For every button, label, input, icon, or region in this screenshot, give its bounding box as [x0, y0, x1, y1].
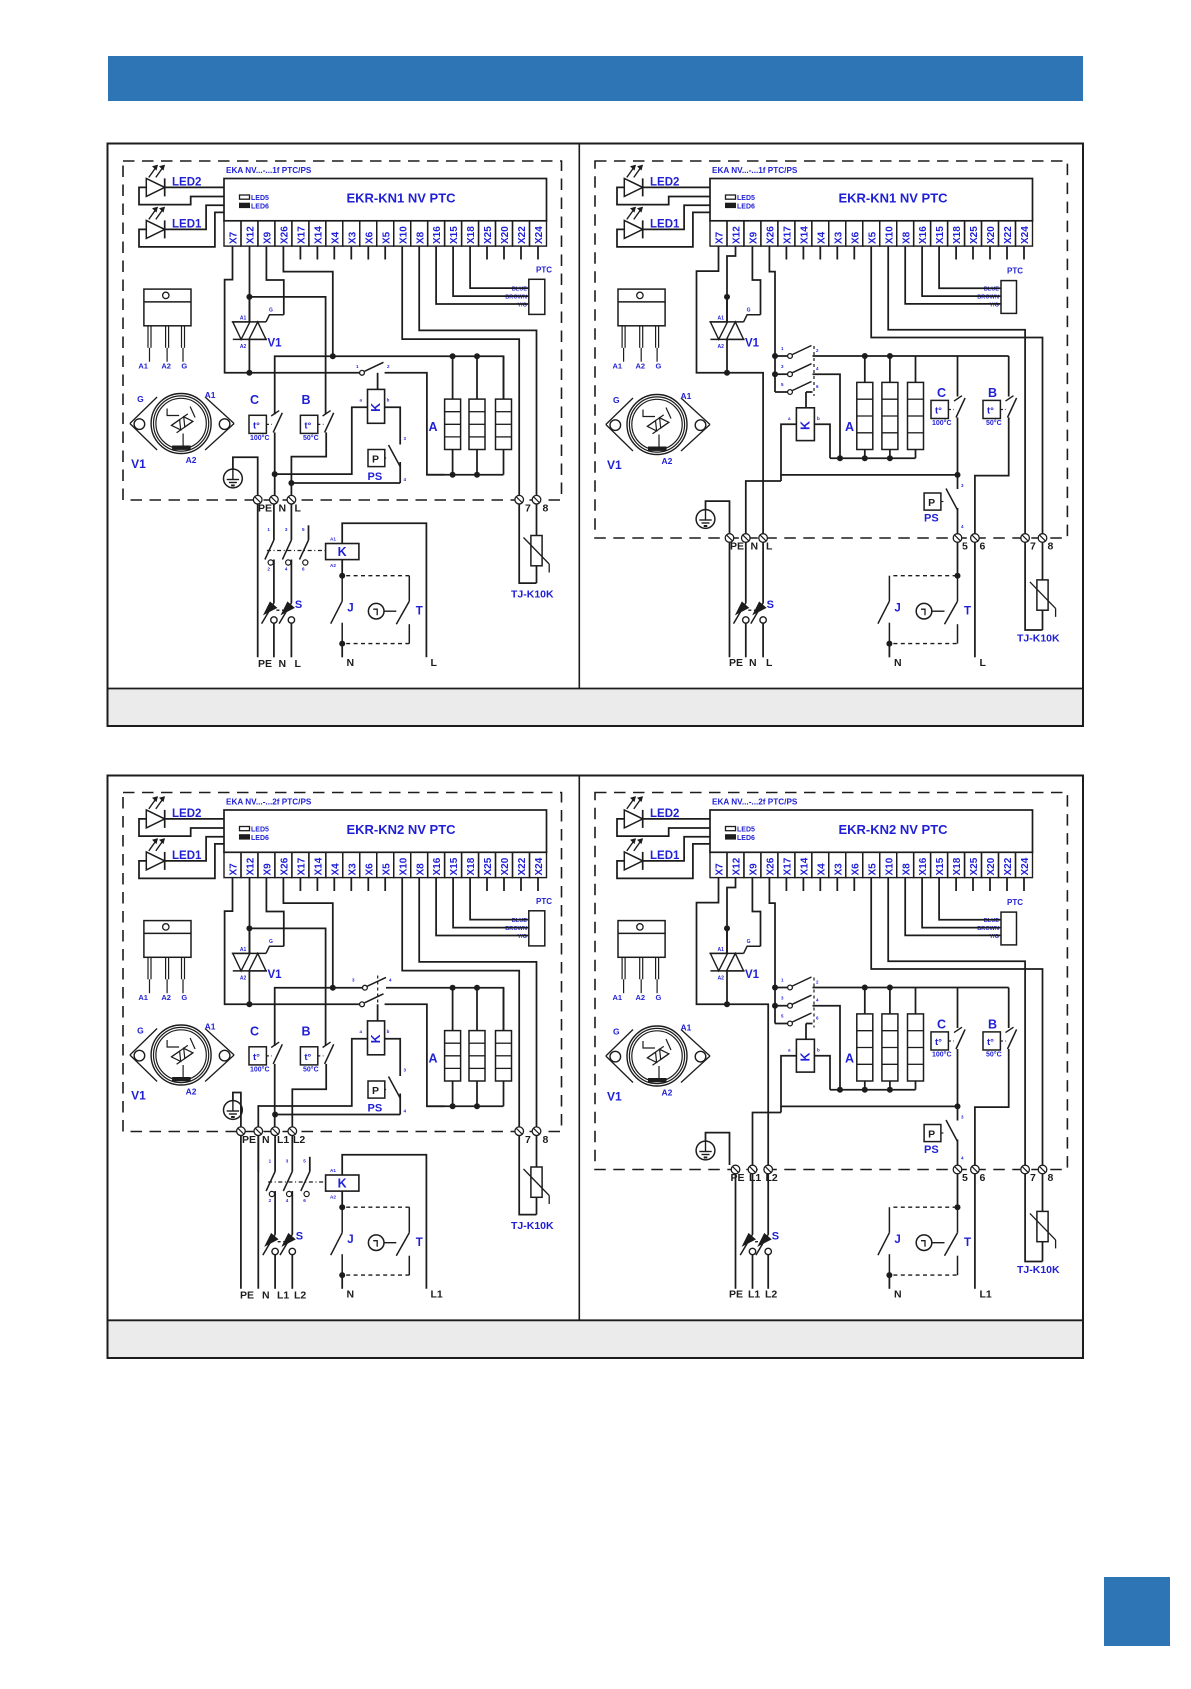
wire switch to relay K coil	[377, 373, 379, 390]
switch linkage	[813, 978, 815, 1028]
wire PE down	[729, 542, 731, 657]
node heater bottom junctions	[862, 455, 868, 461]
svg-text:7: 7	[1030, 1172, 1036, 1184]
svg-text:N: N	[894, 1289, 902, 1301]
svg-text:L: L	[295, 658, 302, 670]
switch pole 1	[775, 987, 788, 989]
svg-text:L1: L1	[748, 1289, 760, 1301]
wire C feed	[957, 988, 959, 1029]
svg-text:X3: X3	[347, 231, 358, 244]
page header bar	[108, 56, 1083, 101]
svg-text:A: A	[429, 420, 438, 434]
svg-text:X17: X17	[297, 857, 308, 875]
indicator LED6	[726, 203, 736, 207]
svg-text:1: 1	[267, 527, 270, 532]
thermostat B 50degC	[300, 415, 317, 433]
wire K coil top to L	[342, 523, 426, 657]
svg-text:X6: X6	[364, 231, 375, 244]
blue page number block	[1104, 1577, 1170, 1646]
node heater top junctions	[450, 985, 456, 991]
heater return rail	[427, 474, 504, 476]
svg-text:8: 8	[543, 503, 549, 515]
svg-text:A1: A1	[681, 391, 692, 401]
svg-text:A: A	[845, 1052, 854, 1066]
svg-text:PS: PS	[924, 1144, 939, 1156]
svg-text:LED6: LED6	[737, 203, 755, 210]
indicator LED6	[240, 835, 250, 839]
protective earth symbol	[696, 1141, 715, 1160]
svg-text:t°: t°	[987, 405, 994, 416]
indicator LED6	[240, 203, 250, 207]
svg-text:X14: X14	[314, 857, 325, 875]
bushing terminal 6	[971, 534, 980, 543]
svg-text:N: N	[262, 1290, 270, 1302]
svg-text:LED5: LED5	[251, 195, 269, 202]
node heater top junctions	[862, 985, 868, 991]
svg-text:X18: X18	[952, 857, 963, 875]
wire X10 to terminal 7	[402, 246, 519, 495]
thermostat JT circuit	[346, 575, 409, 577]
wire X12 to triac A1	[249, 246, 251, 322]
protective earth symbol	[224, 1101, 243, 1120]
svg-text:N: N	[751, 541, 759, 553]
svg-text:G: G	[181, 993, 187, 1002]
wire X18 stub	[955, 246, 957, 259]
svg-text:b: b	[387, 1029, 390, 1034]
wire X7 to triac A2 rail	[697, 878, 728, 1005]
svg-text:C: C	[250, 1025, 259, 1039]
controller module EKR-KN2 NV PTC	[224, 810, 547, 852]
figure table bottom row	[108, 776, 1084, 1359]
controller module EKR-KN2 NV PTC	[710, 810, 1033, 852]
svg-text:X16: X16	[432, 857, 443, 875]
wire K right pin to heater return	[814, 1056, 830, 1090]
PTC connector	[529, 911, 545, 946]
svg-text:A2: A2	[662, 1088, 673, 1098]
svg-text:X18: X18	[466, 857, 477, 875]
svg-text:t°: t°	[253, 420, 260, 431]
svg-text:X16: X16	[918, 857, 929, 875]
svg-text:5: 5	[962, 541, 968, 553]
enclosure bushings supply	[731, 1165, 740, 1174]
wire X9 to gate	[266, 246, 283, 315]
svg-text:100°C: 100°C	[932, 419, 952, 427]
svg-text:TJ-K10K: TJ-K10K	[1017, 633, 1060, 645]
svg-text:G: G	[656, 993, 662, 1002]
svg-text:TJ-K10K: TJ-K10K	[511, 1220, 554, 1232]
triac V1 symbol	[709, 952, 743, 954]
thermostat B 50degC	[983, 400, 1000, 418]
svg-text:X9: X9	[749, 863, 760, 876]
svg-text:A1: A1	[240, 947, 247, 953]
wire K coil top to L	[342, 1155, 426, 1289]
svg-text:L: L	[295, 503, 302, 515]
wire LED1 return loop	[139, 844, 224, 879]
thermostat JT circuit	[346, 1206, 409, 1208]
switch pole 2	[775, 1005, 788, 1007]
svg-text:6: 6	[302, 567, 305, 572]
wire triac vertical	[248, 928, 250, 953]
switch S	[734, 602, 747, 623]
node heater bottom junctions	[862, 1087, 868, 1093]
svg-text:X9: X9	[263, 863, 274, 876]
bushing terminal 7	[1021, 1165, 1030, 1174]
contactor K coil	[326, 1175, 359, 1191]
svg-text:X9: X9	[749, 231, 760, 244]
svg-text:C: C	[937, 386, 946, 400]
svg-text:PTC: PTC	[536, 897, 552, 906]
LED2	[146, 178, 164, 196]
svg-text:X3: X3	[347, 863, 358, 876]
switch linkage	[813, 346, 815, 396]
wire C to PS junction	[957, 1049, 959, 1121]
svg-text:X12: X12	[246, 857, 257, 875]
svg-text:A1: A1	[718, 315, 725, 321]
bushing terminal 7	[1021, 534, 1030, 543]
node heater bottom junctions	[450, 472, 456, 478]
svg-text:K: K	[799, 1052, 813, 1061]
svg-text:X8: X8	[901, 863, 912, 876]
svg-text:X6: X6	[850, 863, 861, 876]
svg-text:B: B	[988, 1018, 997, 1032]
svg-text:1: 1	[269, 1159, 272, 1164]
wire K right pin to PS	[385, 1039, 401, 1076]
wire L down to contactor	[290, 504, 292, 540]
svg-text:LED6: LED6	[251, 835, 269, 842]
heater return rail	[830, 1089, 916, 1091]
wire earth to PE	[233, 1093, 241, 1127]
node triac top	[724, 925, 730, 931]
svg-text:X4: X4	[816, 231, 827, 244]
svg-text:X18: X18	[952, 226, 963, 244]
svg-text:EKA NV...-...2f PTC/PS: EKA NV...-...2f PTC/PS	[712, 798, 798, 807]
triac V1 symbol	[709, 321, 743, 323]
svg-text:t°: t°	[304, 420, 311, 431]
svg-text:5: 5	[962, 1172, 968, 1184]
TO-220 package	[144, 921, 191, 958]
wire to N bottom	[341, 644, 343, 658]
svg-text:7: 7	[525, 503, 531, 515]
wire L riser to triac bottom	[727, 373, 763, 534]
svg-text:X20: X20	[986, 857, 997, 875]
svg-text:X20: X20	[500, 226, 511, 244]
svg-text:PS: PS	[368, 1103, 383, 1115]
bushing terminal 8	[532, 495, 541, 504]
svg-text:N: N	[279, 503, 287, 515]
wire X9 to gate	[752, 878, 760, 947]
svg-text:L: L	[431, 657, 438, 669]
svg-text:S: S	[772, 1231, 779, 1243]
svg-text:X14: X14	[314, 226, 325, 244]
svg-text:X16: X16	[918, 226, 929, 244]
heater return rail	[427, 1105, 504, 1107]
PTC connector	[1001, 912, 1017, 945]
node switch feed 2	[772, 371, 778, 377]
pressure switch PS	[368, 1081, 385, 1098]
svg-text:P: P	[928, 497, 935, 509]
wire earth to PE	[706, 501, 730, 533]
svg-text:X3: X3	[833, 231, 844, 244]
temperature sensor TJ-K10K	[519, 1136, 536, 1215]
wire triac top to thermostat B column	[249, 928, 325, 1045]
svg-text:A2: A2	[636, 993, 646, 1002]
svg-text:X15: X15	[935, 226, 946, 244]
svg-text:X4: X4	[330, 863, 341, 876]
node triac bottom	[724, 370, 730, 376]
svg-text:K: K	[369, 1034, 383, 1043]
svg-text:K: K	[338, 1177, 347, 1191]
svg-text:X17: X17	[297, 226, 308, 244]
node heater top junctions	[862, 353, 868, 359]
svg-text:X12: X12	[246, 226, 257, 244]
svg-text:PE: PE	[240, 1290, 254, 1302]
wire LED2 cathode to controller	[643, 186, 710, 188]
thermostat JT circuit	[893, 1206, 957, 1208]
wire triac vertical	[726, 928, 728, 953]
node triac top	[724, 294, 730, 300]
svg-text:PE: PE	[729, 1289, 743, 1301]
svg-text:L1: L1	[277, 1134, 289, 1146]
svg-text:X10: X10	[884, 857, 895, 875]
svg-text:50°C: 50°C	[303, 1065, 319, 1073]
svg-text:6: 6	[303, 1198, 306, 1203]
wires to S	[752, 1174, 754, 1234]
svg-text:A2: A2	[718, 344, 725, 350]
svg-text:X25: X25	[969, 857, 980, 875]
wire X18 to PTC blue	[470, 246, 529, 288]
svg-text:G: G	[269, 307, 273, 313]
svg-text:X5: X5	[867, 863, 878, 876]
wire B to L column	[291, 432, 326, 483]
node triac bottom	[246, 370, 252, 376]
wire PE down	[240, 1136, 242, 1289]
svg-text:X26: X26	[280, 857, 291, 875]
wire LED2 cathode to controller	[165, 186, 224, 188]
svg-text:t°: t°	[304, 1052, 311, 1063]
svg-text:J: J	[894, 1234, 900, 1246]
terminal strip X7..X24	[710, 221, 727, 246]
node switch feed 1	[772, 985, 778, 991]
svg-text:L2: L2	[765, 1289, 777, 1301]
svg-text:PTC: PTC	[536, 266, 552, 275]
svg-text:EKR-KN1 NV PTC: EKR-KN1 NV PTC	[838, 191, 948, 206]
svg-text:G: G	[181, 362, 187, 371]
wire X26 riser	[283, 246, 332, 356]
svg-text:V1: V1	[268, 338, 283, 350]
svg-text:5: 5	[303, 1159, 306, 1164]
svg-text:V1: V1	[607, 458, 622, 472]
svg-text:8: 8	[1048, 1172, 1054, 1184]
wire C column	[274, 413, 276, 415]
node triac bottom	[246, 1001, 252, 1007]
terminal strip X7..X24	[224, 221, 241, 246]
figure table top row	[108, 144, 1084, 727]
wire N down to contactor	[257, 1136, 259, 1172]
wire triac vertical	[726, 297, 728, 322]
svg-text:A1: A1	[240, 315, 247, 321]
wire X9 to gate	[266, 878, 283, 947]
svg-text:X15: X15	[449, 226, 460, 244]
svg-text:X9: X9	[263, 231, 274, 244]
node JT bottom junction	[339, 1272, 345, 1278]
svg-text:A1: A1	[205, 390, 216, 400]
svg-text:X5: X5	[381, 231, 392, 244]
svg-text:100°C: 100°C	[250, 434, 270, 442]
wire X7 to triac A2 rail	[225, 878, 249, 1005]
svg-text:PE: PE	[258, 658, 272, 670]
svg-text:G: G	[747, 307, 751, 313]
wire LED1 cathode to controller	[643, 205, 710, 229]
svg-text:PS: PS	[368, 471, 383, 483]
svg-text:LED6: LED6	[251, 203, 269, 210]
PTC connector	[1001, 281, 1017, 314]
svg-text:L1: L1	[749, 1172, 761, 1184]
wire LED1 return loop	[139, 212, 224, 247]
svg-text:X5: X5	[867, 231, 878, 244]
svg-text:L1: L1	[277, 1290, 289, 1302]
svg-text:b: b	[817, 416, 820, 421]
wire K coil bottom	[341, 560, 343, 576]
indicator LED5	[726, 195, 736, 199]
wires contactor to S	[274, 1191, 276, 1234]
wire earth to PE	[233, 457, 258, 495]
wire triac top to thermostat B column	[249, 297, 325, 414]
svg-text:X16: X16	[432, 226, 443, 244]
wire X5 to terminal 8	[871, 246, 1042, 533]
wires to S	[745, 542, 747, 602]
svg-text:A1: A1	[205, 1022, 216, 1032]
svg-text:P: P	[372, 1085, 379, 1097]
wire X8 to terminal 8	[419, 246, 536, 495]
svg-text:X17: X17	[783, 226, 794, 244]
svg-text:X7: X7	[229, 231, 240, 244]
svg-text:X7: X7	[229, 863, 240, 876]
svg-text:3: 3	[286, 1159, 289, 1164]
svg-text:EKR-KN2 NV PTC: EKR-KN2 NV PTC	[838, 822, 948, 837]
LED2	[146, 810, 164, 828]
LED1	[624, 220, 642, 238]
wire X12 to triac A1	[727, 878, 736, 954]
svg-text:PTC: PTC	[1007, 267, 1023, 276]
svg-text:PE: PE	[730, 541, 744, 553]
V1 stud package	[606, 1030, 633, 1057]
svg-text:X15: X15	[935, 857, 946, 875]
contactor K poles	[265, 540, 274, 560]
svg-text:TJ-K10K: TJ-K10K	[511, 589, 554, 601]
svg-text:K: K	[799, 421, 813, 430]
wire X16 to PTC yg	[436, 246, 529, 304]
node JT top junction	[955, 1204, 961, 1210]
wire triac bottom to switch	[249, 372, 359, 374]
svg-text:A1: A1	[330, 1168, 336, 1173]
svg-text:G: G	[613, 395, 620, 405]
svg-text:L: L	[766, 541, 773, 553]
svg-text:X24: X24	[1020, 226, 1031, 244]
svg-text:A2: A2	[161, 362, 171, 371]
svg-text:N: N	[749, 657, 757, 669]
svg-text:X3: X3	[833, 863, 844, 876]
svg-text:J: J	[347, 1234, 353, 1246]
node triac top	[246, 925, 252, 931]
svg-text:B: B	[302, 1025, 311, 1039]
svg-text:EKR-KN1 NV PTC: EKR-KN1 NV PTC	[346, 191, 456, 206]
wire terminal 6 to L bottom	[974, 1174, 976, 1289]
svg-text:X8: X8	[415, 231, 426, 244]
wire X8 to PTC yg	[905, 246, 1001, 304]
svg-text:G: G	[656, 362, 662, 371]
wire K coil bottom	[341, 1191, 343, 1207]
diagram 4: EKR-KN2 two phase direct	[595, 793, 1067, 1301]
wire X12 to triac A1	[249, 878, 251, 954]
switch pole 2	[775, 373, 788, 375]
svg-text:P: P	[372, 454, 379, 466]
node JT bottom junction	[339, 641, 345, 647]
wire PE down	[735, 1174, 737, 1289]
switch S	[740, 1234, 753, 1255]
wire LED1 cathode to controller	[643, 837, 710, 861]
svg-text:t°: t°	[935, 405, 942, 416]
svg-text:K: K	[338, 545, 347, 559]
indicator LED5	[240, 195, 250, 199]
wire switch to heater return	[385, 373, 445, 475]
V1 stud package	[130, 397, 157, 424]
svg-text:B: B	[988, 386, 997, 400]
heater feed rail	[275, 356, 504, 414]
svg-text:PS: PS	[924, 513, 939, 525]
wire pole2 to heater return	[385, 1004, 445, 1106]
svg-text:T: T	[416, 1237, 423, 1249]
svg-text:X10: X10	[884, 226, 895, 244]
svg-text:EKA NV...-...1f PTC/PS: EKA NV...-...1f PTC/PS	[226, 166, 312, 175]
wire N down to contactor	[273, 504, 275, 540]
svg-text:5: 5	[302, 527, 305, 532]
V1 stud package	[130, 1029, 157, 1056]
relay K	[796, 408, 814, 441]
node X26/heater rail junction	[330, 985, 336, 991]
diagram 3: EKR-KN2 two phase with contactor	[123, 793, 562, 1302]
wire N bottom	[257, 1136, 259, 1289]
svg-text:2: 2	[269, 1198, 272, 1203]
wire X10 to terminal 7	[888, 246, 1025, 533]
svg-text:C: C	[250, 393, 259, 407]
svg-text:50°C: 50°C	[986, 1050, 1002, 1058]
svg-text:b: b	[387, 397, 390, 402]
LED2	[624, 178, 642, 196]
wire X18 to PTC blue	[470, 878, 529, 920]
svg-text:X22: X22	[1003, 226, 1014, 244]
switch S	[262, 602, 275, 623]
svg-text:J: J	[347, 603, 353, 615]
wire LED2 cathode to controller	[165, 818, 224, 820]
wire L down to contactor	[274, 1136, 276, 1172]
svg-text:A2: A2	[186, 1087, 197, 1097]
wire pole2 to relay K coil	[377, 1004, 379, 1021]
switch pole 1	[775, 355, 788, 357]
svg-text:X22: X22	[517, 226, 528, 244]
svg-text:A2: A2	[718, 975, 725, 981]
svg-text:X5: X5	[381, 863, 392, 876]
wire LED2 return loop	[139, 819, 224, 836]
switch pole 3	[775, 391, 788, 393]
svg-text:50°C: 50°C	[303, 434, 319, 442]
wires contactor to S	[273, 560, 275, 603]
svg-text:N: N	[347, 657, 355, 669]
node K bottom junction	[339, 573, 345, 579]
svg-text:8: 8	[1048, 541, 1054, 553]
device enclosure (dashed boundary)	[595, 793, 1067, 1170]
controller module EKR-KN1 NV PTC	[224, 179, 547, 221]
svg-text:X7: X7	[715, 231, 726, 244]
